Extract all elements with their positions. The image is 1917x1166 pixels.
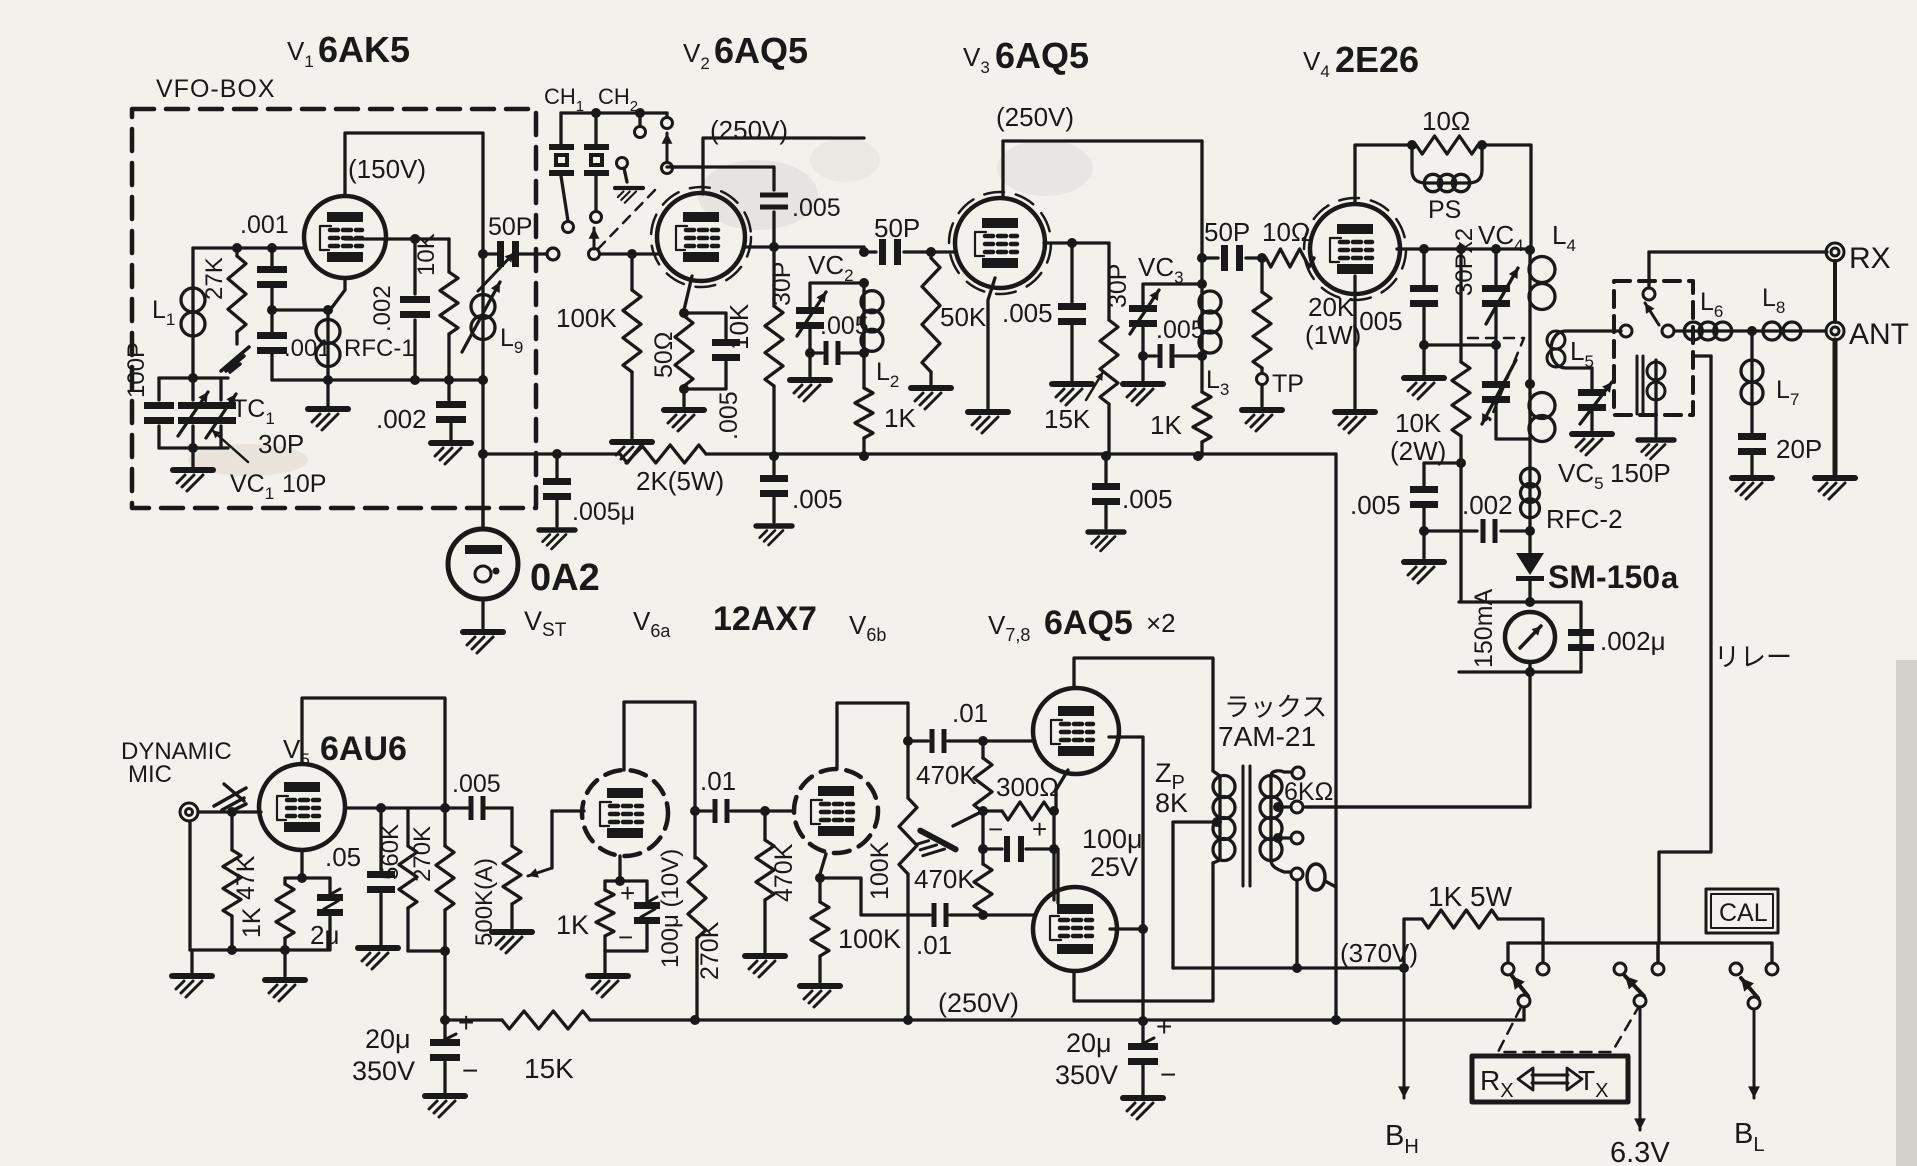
cathode tie line [1052,811,1055,900]
resistor 300 ohm [983,809,1002,812]
capacitor 20u 350V right [1141,1020,1144,1042]
junction RFC-1 top [323,305,333,315]
tube 0A2 regulator [448,529,518,599]
svg-text:(250V): (250V) [710,115,788,145]
tilted ground mid [953,811,983,826]
V3 plate rail [1003,141,1202,198]
svg-text:リレー: リレー [1714,642,1792,672]
inductor L2 [862,283,865,292]
V2 plate rail [703,138,864,194]
ground V3 cathode [968,412,1008,433]
svg-text:.05: .05 [325,842,361,872]
ANT line with L6 L8 [1674,329,1686,332]
junction tank top [859,278,869,288]
terminal 50P output [547,248,559,260]
svg-text:500K(A): 500K(A) [471,858,498,946]
variable cap VC4 lower [1494,345,1497,380]
secondary terminal 4 common [1271,860,1290,872]
tube V2 6AQ5 [651,187,751,287]
svg-text:300Ω: 300Ω [996,772,1059,802]
V6a cathode lead [618,856,621,878]
junction RFC-1 bottom [323,375,333,385]
ground 50K [911,388,951,409]
ground .005 meter [1422,531,1425,558]
svg-text:1K: 1K [238,907,266,938]
resistor 270K V6a load [693,811,696,858]
mic ground drop [188,821,191,950]
junction V3 coupling out [1197,253,1207,263]
wire to RX terminal [1649,250,1827,253]
capacitor .005 bus V3 [1104,456,1107,482]
choke RFC-1 [326,310,329,320]
junction 300 ohm right [1049,806,1059,816]
junction meter bottom [1525,667,1535,677]
ground 0A2 [463,632,503,653]
tube V8 6AQ5 [1033,887,1117,971]
svg-text:.005: .005 [1156,316,1205,344]
V5 cathode lead [300,850,303,878]
V7 grid wire [983,739,1035,742]
resistor 15K decoupling [502,1011,590,1029]
V4 plate rail to tank [1482,145,1531,250]
svg-text:470K: 470K [770,843,798,902]
relay common contact [1620,325,1632,337]
inductor L1 [191,248,194,288]
V4 grid wire [1309,256,1312,259]
resistor 100K V2 grid [630,254,633,290]
junction grid-.001 [267,243,277,253]
ANT ground drop [1833,340,1838,474]
V8 screen wire [1110,927,1143,930]
resistor 470K V6b grid [763,811,766,840]
resistor 10K 2W [1456,244,1466,254]
junction tank bottom [859,348,869,358]
diode SM-150a [1528,531,1531,552]
junction .005 bottom [1419,340,1429,350]
capacitor .005 tank [810,351,822,354]
transformer secondary [1269,776,1272,860]
junction screen B+ [1138,1016,1148,1026]
V3 cathode lead [988,278,995,408]
tank top wire TC box [159,376,228,379]
VFO bottom wire [272,378,483,381]
svg-text:6AU6: 6AU6 [320,730,407,768]
ground .005u [539,530,575,549]
resistor 15K [1107,243,1110,320]
V3 rail drop to tank [1200,141,1203,284]
svg-text:(370V): (370V) [1340,938,1418,968]
svg-text:.005μ: .005μ [572,498,635,526]
svg-text:50P: 50P [1204,217,1250,247]
junction L7 [1747,326,1757,336]
junction screen V8 [1138,924,1148,934]
capacitor 20u 350V left [443,1020,446,1038]
svg-text:30P: 30P [1104,264,1132,308]
svg-text:+: + [1032,814,1047,844]
arm2 wire to plate rail [672,165,703,168]
ground tank V3 [1141,356,1144,380]
svg-text:100K: 100K [866,841,894,900]
inductor L3 [1200,284,1203,292]
contact CH1 [563,222,574,233]
mic shield hatch [224,784,244,801]
resistor 100K V6b load [906,741,909,798]
selector arm 2 with arrow [662,163,673,174]
junction PS right [1477,140,1487,150]
stub O to HT line [1325,881,1336,887]
svg-text:0A2: 0A2 [530,557,600,599]
load return to B+ [408,951,445,1020]
selector wafer 2 contact b [665,113,668,117]
resistor 100K V6b cathode [818,878,821,902]
0A2 bottom lead [481,599,484,628]
svg-text:−: − [1160,1059,1176,1090]
choke RFC-2 [1528,440,1531,470]
cathode out to V8 cap [820,878,930,915]
junction 100K grid leak [627,249,637,259]
ground ANT [1815,478,1855,499]
svg-text:−: − [618,922,633,952]
V1 output wire to 10K [345,237,449,240]
svg-text:6AK5: 6AK5 [318,29,410,70]
switch3 right contact [1770,943,1773,961]
variable cap VC2 [796,307,824,314]
svg-text:+: + [1156,1011,1172,1042]
V7 screen wire [1109,737,1143,1024]
resistor 27K [235,248,238,256]
V3 grid-right wire [1044,241,1109,244]
svg-text:12AX7: 12AX7 [713,600,817,638]
relay coil feed stub [1693,354,1711,357]
svg-text:RFC-2: RFC-2 [1546,504,1623,534]
V8 grid wire [983,913,1035,916]
svg-text:10Ω: 10Ω [1262,217,1310,247]
capacitor .005 cathode bypass [684,313,726,338]
resistor 470K lower [981,849,984,864]
capacitor .01 V8 coupling [932,903,937,927]
svg-text:20K: 20K [1308,292,1355,322]
ground 20u left [425,1096,465,1117]
ground 50 ohm [664,410,704,431]
svg-text:2μ: 2μ [310,920,339,950]
capacitor 100P [157,378,160,400]
capacitor 20P [1750,404,1753,432]
svg-text:10K: 10K [413,233,440,276]
svg-text:270K: 270K [696,921,724,980]
selector wafer 2 contact a [638,113,641,126]
svg-text:VFO-BOX: VFO-BOX [156,75,276,103]
svg-text:.005: .005 [792,194,841,222]
svg-text:6AQ5: 6AQ5 [995,35,1089,76]
inductor L9 variable [481,254,484,296]
switch2 left contact [1614,963,1626,975]
svg-text:CAL: CAL [1719,899,1768,927]
switch1 drop to B+ [1522,1007,1525,1020]
tube V7 6AQ5 [1033,688,1119,774]
switch1 right contact [1537,963,1549,975]
svg-text:1K: 1K [1150,410,1182,440]
svg-text:100μ (10V): 100μ (10V) [657,849,684,968]
VFO output drop to bus [481,380,484,529]
bus corner drop [1334,454,1337,1020]
svg-text:.002: .002 [369,285,396,332]
capacitor .002u meter [1568,629,1594,636]
junction tank bottom V3 [1197,351,1207,361]
svg-text:1K: 1K [884,403,916,433]
svg-text:(150V): (150V) [348,154,426,184]
svg-text:MIC: MIC [128,761,172,788]
junction VC3 bottom [1138,351,1148,361]
junction 370V switch [1399,963,1409,973]
V6b cathode lead [820,854,826,874]
junction 1K bus V3 [1193,451,1203,461]
resistor 10 ohm grid stopper [1266,249,1314,267]
capacitor .001 (upper) [270,248,273,266]
ground .05 [358,948,398,969]
selector arm 1 with arrow [589,249,600,260]
svg-text:.01: .01 [952,698,988,728]
svg-text:20P: 20P [1776,434,1822,464]
svg-text:30P: 30P [258,429,304,459]
meter 150mA [1505,612,1555,662]
svg-text:50P: 50P [488,213,532,241]
switch gang dashed link [1498,1007,1638,1052]
junction L9 top / 50P [478,249,488,259]
svg-text:150P: 150P [1610,458,1671,488]
switch2 movable [1634,995,1646,1007]
switch1 movable [1518,995,1530,1007]
capacitor 50P output [483,252,546,255]
capacitor .005 tank V3 [1143,354,1156,357]
svg-text:1K 5W: 1K 5W [1428,881,1513,912]
junction 15K bus [1101,451,1111,461]
relay armature arrow [1645,303,1659,325]
capacitor .005u bus [555,454,558,478]
svg-text:100μ: 100μ [1082,824,1143,854]
junction grid-27K [232,243,242,253]
svg-text:SM-150: SM-150 [1548,559,1660,595]
svg-text:560K: 560K [377,824,404,880]
junction V6b grid [760,806,770,816]
junction PS left [1407,140,1417,150]
capacitor .01 V7 coupling [908,739,928,742]
V4 cathode lead [1353,276,1356,408]
junction L9 bottom [478,375,488,385]
V3 grid wire from 50P [923,250,956,253]
capacitor .002 to ground [447,380,450,400]
meter box left side [1459,463,1581,672]
junction RFC-2 bottom [1525,526,1535,536]
junction 50K [926,247,936,257]
svg-text:(250V): (250V) [996,102,1074,132]
terminal RX [1826,243,1844,261]
junction .005 node [1067,238,1077,248]
svg-text:20μ: 20μ [1066,1028,1112,1058]
inductor L4 upper [1528,250,1531,256]
svg-text:×2: ×2 [1146,608,1176,638]
svg-text:15K: 15K [1044,404,1091,434]
ground VFO cathode [326,380,329,406]
svg-text:−: − [988,814,1003,844]
inductor L7 [1750,331,1753,360]
junction L1 bottom [188,373,198,383]
svg-text:50Ω: 50Ω [650,332,678,379]
tube V6b half 12AX7 [794,769,878,853]
V2 cathode lead [684,276,692,310]
junction screen node [769,242,779,252]
resistor 47K [230,812,233,850]
svg-text:25V: 25V [1090,852,1138,882]
junction divider mid [978,806,988,816]
inductor L4 lower [1528,384,1531,394]
crystal CH1 [559,113,562,144]
svg-text:10K: 10K [1395,408,1442,438]
svg-text:100P: 100P [123,342,150,398]
V1 grid wire [193,246,304,249]
V1 cathode lead [272,278,345,310]
svg-text:.005: .005 [1350,490,1401,520]
V6b plate loop [837,703,908,768]
svg-text:.005: .005 [1002,298,1053,328]
svg-text:.001: .001 [240,211,289,239]
27K slanted chassis mark [221,347,249,372]
svg-text:150mA: 150mA [1470,588,1498,668]
svg-text:100K: 100K [838,924,901,954]
variable cap VC3 [1129,305,1157,312]
HT line 370V [1173,966,1404,969]
ground 470K V6b [745,956,785,977]
junction .002 left [1419,526,1429,536]
transformer primary [1213,771,1220,776]
svg-text:470K: 470K [916,760,977,790]
junction 10K bus [769,451,779,461]
junction 100K B+ [903,1015,913,1025]
svg-text:270K: 270K [409,826,436,882]
pot 500K(A) [510,808,513,846]
V7 cathode lead [1056,770,1068,811]
ground 100K cathode [800,986,840,1007]
switch feed line [1508,941,1772,944]
V5 grid wire [198,810,261,813]
junction V8 grid [978,910,988,920]
capacitor .005 coupling V5-V6a [469,796,474,820]
switch1 left contact [1506,943,1509,961]
ground 100K [612,442,652,463]
svg-text:.005: .005 [1352,306,1403,336]
svg-text:.002: .002 [1462,490,1513,520]
ground tank V2 [808,353,811,376]
junction tank bottom [188,443,198,453]
svg-text:470K: 470K [914,864,975,894]
arrow BL [1753,1009,1756,1098]
capacitor .005 V4 [1422,249,1425,284]
V2 grid-right wire [746,245,864,248]
svg-text:.005: .005 [792,484,843,514]
svg-text:RFC-1: RFC-1 [344,335,415,362]
ground .002 [431,443,471,464]
svg-text:.005: .005 [715,391,743,440]
resistor 470K upper [981,741,984,758]
ground 20u right [1123,1098,1163,1119]
resistor 20K 1W [1260,258,1263,292]
junction .002 bottom [410,375,420,385]
relay dashed box [1614,281,1693,415]
terminal TP [1257,374,1268,385]
svg-text:6AQ5: 6AQ5 [714,30,808,71]
ground 20P [1732,478,1772,499]
relay link winding [1637,356,1643,414]
svg-text:6AQ5: 6AQ5 [1044,604,1133,642]
junction L4 top [1525,245,1535,255]
capacitor 100u 10V [620,881,647,902]
junction V2 plate node [859,247,869,257]
resistor 10 ohm parasitic [1416,136,1478,154]
label O common [1307,864,1325,890]
svg-text:20μ: 20μ [365,1024,411,1054]
transformer core [1243,766,1250,886]
svg-text:.002μ: .002μ [1600,626,1666,656]
junction cathode node [267,305,277,315]
tube V3 6AQ5 [949,192,1051,294]
Rx Tx box [1472,1056,1628,1102]
junction 10K2W bottom [1456,458,1466,468]
ground VC5 [1572,434,1612,455]
svg-text:6KΩ: 6KΩ [1284,778,1333,806]
V1 plate lead to 150V and 50P node [345,133,483,249]
svg-text:PS: PS [1428,196,1461,224]
capacitor .05 [379,808,382,870]
svg-text:15K: 15K [524,1053,574,1084]
tank bottom wire [159,446,228,449]
wire .005 to VC4b [1424,343,1496,346]
svg-text:.002: .002 [376,404,427,434]
junction V6b plate node [903,736,913,746]
ground relay winding [1638,440,1674,459]
selector gang dashed link [598,190,655,249]
junction .005 V4 [1419,244,1429,254]
inductor L8 [1762,329,1802,332]
ground .005 bus V2 [756,526,792,545]
svg-text:−: − [462,1055,478,1086]
ground TP [1242,410,1282,431]
svg-text:27K: 27K [201,257,228,300]
junction L4 tap [1525,379,1535,389]
svg-text:+: + [620,878,635,908]
arrow 6.3V [1639,1007,1642,1130]
svg-text:2E26: 2E26 [1335,39,1419,80]
resistor 10K screen dropper [772,247,775,306]
V8 plate lead [1074,863,1213,1001]
6K output line to meter [1305,805,1530,808]
capacitor .001 (lower) [270,310,273,332]
VC4 gang dashed link [1468,338,1524,420]
svg-text:a: a [1661,560,1679,595]
choke PS [1412,145,1426,183]
junction 10K bottom [444,375,454,385]
svg-text:.005: .005 [1122,484,1173,514]
switch3 left contact [1730,963,1742,975]
crystal top wire [561,111,667,114]
screen feed with .005 [667,167,774,190]
junction 1K bus [859,451,869,461]
V6a grid wire [552,809,584,812]
svg-text:10Ω: 10Ω [1422,106,1470,136]
svg-text:.01: .01 [916,930,952,960]
capacitor 50P coupling V3-V4 [1202,256,1262,259]
resistor 50K grid leak [929,252,932,258]
V6a plate loop [624,702,695,811]
terminal ANT [1826,322,1844,340]
